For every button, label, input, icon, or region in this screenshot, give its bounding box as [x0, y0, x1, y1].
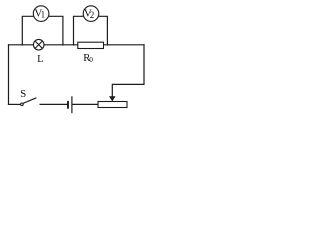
svg-text:S: S — [20, 88, 26, 100]
svg-text:L: L — [37, 54, 43, 65]
svg-text:2: 2 — [90, 10, 95, 20]
svg-text:0: 0 — [89, 55, 93, 64]
svg-text:1: 1 — [41, 10, 46, 20]
